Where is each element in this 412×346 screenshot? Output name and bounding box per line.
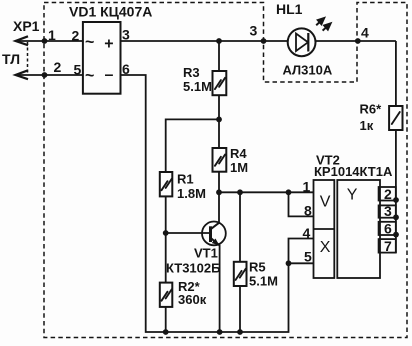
svg-text:3: 3 <box>250 23 258 39</box>
svg-text:1к: 1к <box>360 118 374 133</box>
svg-text:ТЛ: ТЛ <box>2 51 20 67</box>
svg-text:4: 4 <box>303 225 311 241</box>
svg-text:7: 7 <box>384 238 392 254</box>
svg-text:R3: R3 <box>183 65 200 80</box>
svg-text:3: 3 <box>122 27 130 43</box>
svg-text:VT1: VT1 <box>194 246 218 261</box>
svg-text:R6*: R6* <box>360 102 383 117</box>
svg-text:R5: R5 <box>249 260 266 275</box>
svg-text:1M: 1M <box>230 160 248 175</box>
svg-text:VD1 КЦ407А: VD1 КЦ407А <box>69 4 152 20</box>
svg-text:3: 3 <box>384 203 392 219</box>
svg-text:5: 5 <box>74 62 82 78</box>
svg-text:1: 1 <box>48 27 56 43</box>
svg-text:V: V <box>320 194 331 211</box>
svg-text:R4: R4 <box>230 146 247 161</box>
svg-text:8: 8 <box>304 203 312 219</box>
svg-text:Y: Y <box>347 187 358 204</box>
svg-text:360к: 360к <box>178 292 207 307</box>
svg-text:6: 6 <box>122 61 130 77</box>
svg-text:X: X <box>320 239 331 256</box>
svg-text:2: 2 <box>384 186 392 202</box>
svg-text:1: 1 <box>303 179 311 195</box>
svg-text:КТ3102Б: КТ3102Б <box>166 261 220 276</box>
svg-text:КР1014КТ1А: КР1014КТ1А <box>314 164 393 179</box>
svg-text:R1: R1 <box>177 172 194 187</box>
svg-text:2: 2 <box>54 59 62 75</box>
svg-text:–: – <box>105 66 114 83</box>
svg-text:5: 5 <box>304 249 312 265</box>
svg-text:6: 6 <box>384 221 392 237</box>
svg-text:~: ~ <box>85 67 94 84</box>
svg-text:2: 2 <box>72 28 80 44</box>
svg-text:4: 4 <box>361 25 369 41</box>
svg-text:~: ~ <box>85 34 94 51</box>
svg-text:АЛ310А: АЛ310А <box>283 63 333 78</box>
svg-text:5.1M: 5.1M <box>183 79 212 94</box>
svg-text:+: + <box>104 36 113 53</box>
svg-text:ХР1: ХР1 <box>13 18 40 34</box>
svg-text:HL1: HL1 <box>276 1 303 17</box>
svg-text:1.8M: 1.8M <box>177 186 206 201</box>
svg-text:5.1M: 5.1M <box>249 274 278 289</box>
